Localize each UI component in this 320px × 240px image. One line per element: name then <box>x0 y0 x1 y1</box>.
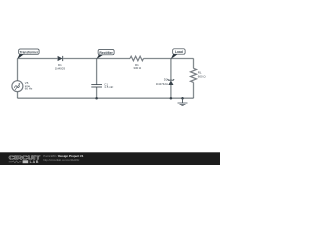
svg-text:1.5 mF: 1.5 mF <box>104 85 113 89</box>
svg-text:http://circuitlab.com/c/4bd45z: http://circuitlab.com/c/4bd45z <box>43 158 80 162</box>
node junction dot zener bottom <box>170 97 173 100</box>
svg-text:1N4742A: 1N4742A <box>156 82 168 86</box>
wire left branch upper <box>17 59 19 81</box>
wire zener branch lower <box>170 85 172 98</box>
diode D1 <box>58 56 63 61</box>
svg-text:Transformer: Transformer <box>20 50 39 54</box>
label R1 330 ohm <box>133 63 142 70</box>
annotation flag Transformer <box>17 49 39 59</box>
svg-text:600 Ω: 600 Ω <box>198 74 207 78</box>
capacitor C1 <box>91 85 102 87</box>
voltage source V5 <box>12 81 23 92</box>
footer bar <box>0 152 220 165</box>
svg-text:LAB: LAB <box>30 160 40 164</box>
resistor RL <box>191 68 197 82</box>
annotation flag Rectifier <box>97 50 115 59</box>
wire zener branch upper <box>170 59 172 81</box>
label V5 sine 60 Hz <box>25 81 33 91</box>
svg-text:1N4003: 1N4003 <box>55 66 66 70</box>
annotation flag Load <box>171 49 185 59</box>
svg-text:Rectifier: Rectifier <box>99 51 113 55</box>
label D2 1N4742A <box>156 78 168 86</box>
wire capacitor branch upper <box>96 59 98 85</box>
label C1 1.5 mF <box>104 83 113 90</box>
node junction dot capacitor bottom <box>95 97 98 100</box>
ground <box>178 98 188 105</box>
svg-text:60 Hz: 60 Hz <box>25 87 33 91</box>
node junction dot ground tap <box>181 97 184 100</box>
wire left branch lower <box>17 92 19 99</box>
wire RL branch lower <box>193 83 195 99</box>
footer credit text <box>43 154 84 162</box>
wire top rail Rectifier node to R1 <box>97 58 130 60</box>
wire RL branch upper <box>193 59 195 69</box>
wire top rail Load node to right corner <box>171 58 194 60</box>
wire bottom rail <box>18 97 194 99</box>
wire top rail R1 to Load node <box>144 58 171 60</box>
svg-text:Load: Load <box>175 50 183 54</box>
label D1 1N4003 <box>55 63 66 70</box>
resistor R1 <box>130 56 144 61</box>
wire top rail D1 to Rectifier node <box>63 58 96 60</box>
svg-text:D2: D2 <box>164 78 168 82</box>
label RL 600 ohm <box>198 70 207 78</box>
svg-text:330 Ω: 330 Ω <box>133 66 142 70</box>
wire top rail left segment <box>18 58 58 60</box>
wire capacitor branch lower <box>96 87 98 98</box>
zener diode D2 <box>168 79 175 85</box>
CircuitLab logo <box>9 156 42 164</box>
